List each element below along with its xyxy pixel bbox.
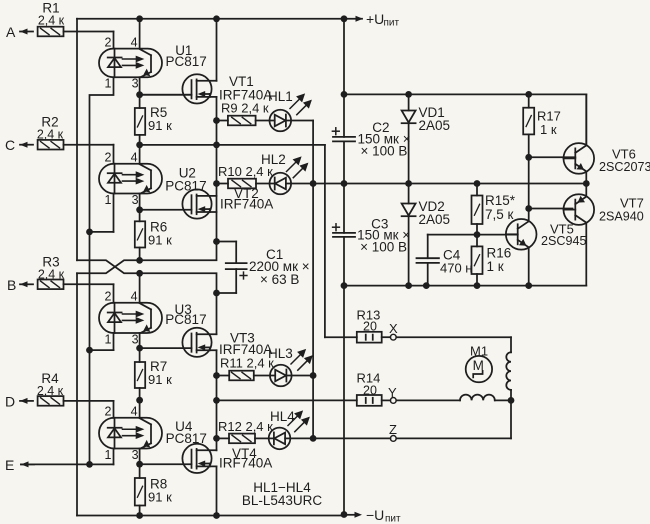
svg-text:2A05: 2A05 [419, 118, 451, 133]
svg-text:M1: M1 [470, 344, 488, 359]
svg-text:1: 1 [105, 333, 112, 347]
svg-text:IRF740A: IRF740A [219, 456, 272, 471]
svg-text:PC817: PC817 [165, 312, 206, 327]
svg-text:VT7: VT7 [620, 196, 644, 211]
svg-text:D: D [5, 394, 15, 410]
svg-text:2SA940: 2SA940 [599, 210, 644, 224]
svg-text:A: A [6, 24, 16, 40]
svg-text:1 к: 1 к [540, 122, 557, 137]
svg-text:7,5 к: 7,5 к [485, 207, 514, 222]
svg-text:4: 4 [131, 405, 138, 419]
svg-text:R11 2,4 к: R11 2,4 к [220, 356, 274, 371]
svg-text:IRF740A: IRF740A [220, 197, 273, 212]
svg-text:2: 2 [105, 35, 112, 49]
svg-text:1: 1 [105, 193, 112, 207]
svg-text:91 к: 91 к [148, 118, 172, 133]
svg-text:пит: пит [385, 514, 401, 524]
svg-text:Z: Z [389, 422, 397, 437]
svg-text:2,4 к: 2,4 к [38, 14, 65, 28]
svg-text:+U: +U [366, 11, 384, 27]
svg-text:91 к: 91 к [148, 490, 172, 505]
svg-text:BL-L543URC: BL-L543URC [242, 493, 323, 508]
svg-text:1: 1 [105, 448, 112, 462]
svg-text:4: 4 [131, 151, 138, 165]
svg-text:3: 3 [132, 333, 139, 347]
svg-text:2,4 к: 2,4 к [37, 384, 64, 398]
svg-text:C: C [5, 137, 15, 153]
svg-text:4: 4 [131, 290, 138, 304]
svg-text:PC817: PC817 [166, 54, 207, 69]
svg-text:PC817: PC817 [165, 179, 206, 194]
svg-text:3: 3 [132, 77, 139, 91]
svg-text:−U: −U [366, 507, 384, 523]
svg-text:× 63 В: × 63 В [260, 272, 299, 287]
svg-text:2,4 к: 2,4 к [37, 128, 64, 142]
svg-text:2SC2073: 2SC2073 [599, 160, 650, 174]
svg-text:2,4 к: 2,4 к [38, 268, 65, 282]
svg-text:R9 2,4 к: R9 2,4 к [221, 101, 269, 116]
svg-text:R12 2,4 к: R12 2,4 к [218, 419, 273, 434]
svg-text:3: 3 [132, 193, 139, 207]
svg-text:HL1: HL1 [268, 89, 293, 104]
svg-text:Y: Y [388, 385, 397, 400]
svg-text:2: 2 [105, 405, 112, 419]
svg-text:R15*: R15* [485, 193, 516, 208]
svg-text:470 н: 470 н [440, 261, 472, 276]
svg-text:HL3: HL3 [268, 346, 293, 361]
svg-text:20: 20 [363, 383, 377, 397]
svg-text:B: B [7, 277, 16, 293]
svg-text:1 к: 1 к [487, 259, 504, 274]
svg-text:2SC945: 2SC945 [541, 234, 587, 248]
svg-text:2: 2 [105, 290, 112, 304]
svg-text:1: 1 [105, 77, 112, 91]
svg-text:3: 3 [132, 448, 139, 462]
svg-text:20: 20 [363, 320, 377, 334]
svg-text:× 100 В: × 100 В [360, 240, 407, 255]
svg-text:пит: пит [384, 18, 400, 29]
svg-text:4: 4 [131, 35, 138, 49]
svg-text:2: 2 [105, 151, 112, 165]
svg-text:91 к: 91 к [148, 372, 172, 387]
svg-text:91 к: 91 к [148, 233, 172, 248]
svg-text:E: E [5, 457, 14, 473]
svg-text:× 100 В: × 100 В [361, 144, 408, 159]
svg-text:HL2: HL2 [261, 152, 286, 167]
svg-text:X: X [389, 321, 398, 336]
svg-text:2A05: 2A05 [419, 212, 451, 227]
